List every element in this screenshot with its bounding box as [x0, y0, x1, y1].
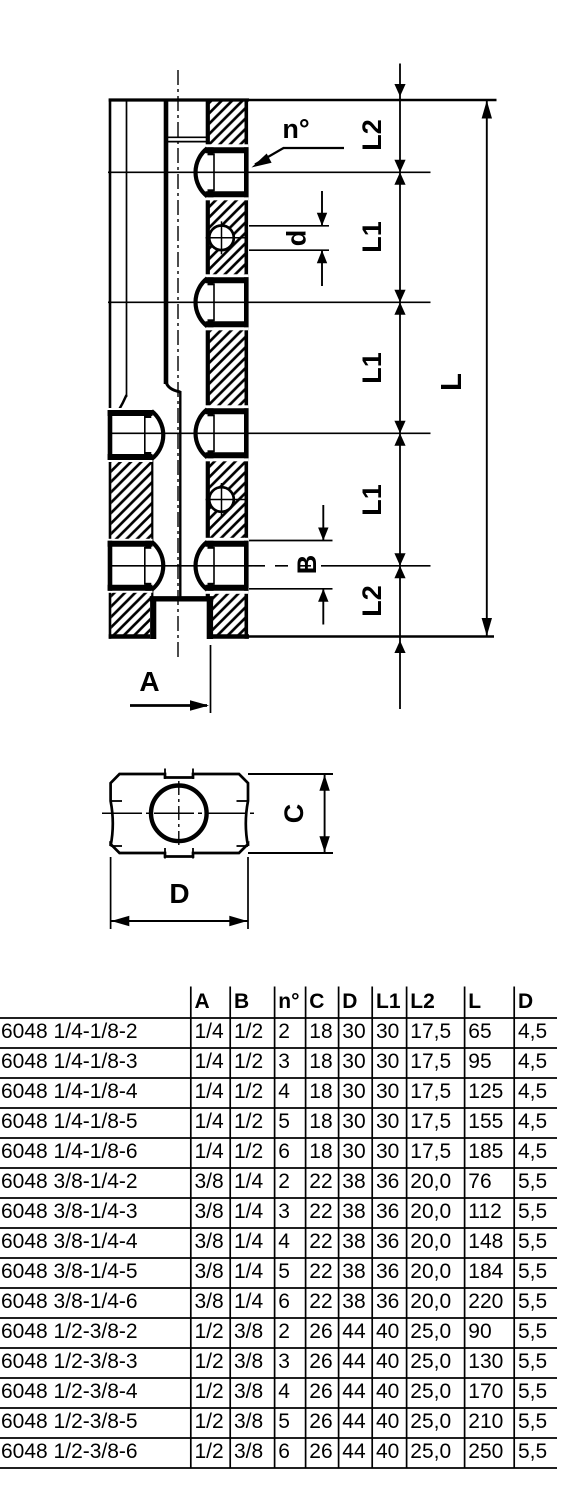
chain dimension line [399, 64, 401, 710]
side port P3 left left border at face [108, 410, 113, 460]
svg-text:4,5: 4,5 [518, 1110, 547, 1133]
svg-text:38: 38 [342, 1230, 365, 1253]
side port P3 left thread line [144, 416, 146, 454]
svg-text:36: 36 [376, 1290, 399, 1313]
svg-text:26: 26 [309, 1350, 332, 1373]
port P4 centerline dashed through B zone [252, 565, 333, 567]
svg-text:40: 40 [376, 1410, 399, 1433]
svg-text:1/2: 1/2 [234, 1140, 263, 1163]
side port P2 right thread line [213, 283, 215, 321]
port P4 centerline solid through body [108, 565, 252, 567]
side port P3 left bottom border [108, 454, 153, 460]
gallery wall bottom curve into bore line [166, 382, 180, 393]
svg-text:6048 1/4-1/8-3: 6048 1/4-1/8-3 [1, 1050, 138, 1073]
svg-text:2: 2 [278, 1170, 290, 1193]
side port P4 right clearing [205, 538, 249, 594]
svg-text:30: 30 [342, 1110, 365, 1133]
svg-text:1/4: 1/4 [234, 1200, 264, 1223]
side port P2 right top border [206, 277, 249, 283]
svg-text:D: D [342, 990, 357, 1013]
side port P1 right right border at face [244, 147, 249, 197]
svg-text:22: 22 [309, 1170, 332, 1193]
top face extension line [249, 99, 497, 101]
svg-text:38: 38 [342, 1200, 365, 1223]
d dimension lower extension line [249, 249, 329, 251]
svg-text:6048 1/2-3/8-3: 6048 1/2-3/8-3 [1, 1350, 138, 1373]
svg-text:1/2: 1/2 [195, 1350, 224, 1373]
svg-text:30: 30 [342, 1140, 365, 1163]
d dimension upper extension line [249, 225, 329, 227]
bore wall line x=180.3 [179, 391, 181, 597]
A dimension arrow line [130, 704, 207, 707]
svg-text:44: 44 [342, 1410, 366, 1433]
side port P3 left thread arc [152, 411, 164, 459]
svg-text:22: 22 [309, 1230, 332, 1253]
svg-text:5,5: 5,5 [518, 1320, 547, 1343]
svg-text:22: 22 [309, 1290, 332, 1313]
mounting hole d2 circle [209, 487, 234, 512]
svg-text:B: B [234, 990, 249, 1013]
svg-text:5,5: 5,5 [518, 1410, 547, 1433]
top view vertical centerline [178, 781, 180, 846]
svg-text:184: 184 [468, 1260, 503, 1283]
side port P3 left top border [108, 410, 153, 416]
d dimension arrow up [317, 250, 327, 263]
svg-text:1/4: 1/4 [234, 1260, 264, 1283]
svg-text:20,0: 20,0 [410, 1290, 451, 1313]
svg-text:A: A [139, 666, 159, 697]
svg-text:25,0: 25,0 [410, 1320, 451, 1343]
top view side port edges left [111, 800, 122, 802]
svg-text:1/4: 1/4 [234, 1230, 264, 1253]
side port P4 right right border at face [244, 541, 249, 591]
D dimension arrow left [111, 916, 129, 926]
svg-text:C: C [279, 804, 309, 824]
svg-text:38: 38 [342, 1260, 365, 1283]
port P1 centerline and extension [108, 171, 431, 173]
svg-text:4,5: 4,5 [518, 1140, 547, 1163]
mounting hole d2 centerlines [206, 499, 248, 501]
svg-text:250: 250 [468, 1440, 503, 1463]
side port P4 left top border [108, 541, 153, 547]
svg-text:3/8: 3/8 [195, 1170, 224, 1193]
svg-text:1/4: 1/4 [234, 1290, 264, 1313]
svg-text:185: 185 [468, 1140, 503, 1163]
svg-text:25,0: 25,0 [410, 1380, 451, 1403]
B dimension lower extension line [249, 588, 333, 590]
side port P3 right top border [206, 408, 249, 414]
svg-text:30: 30 [376, 1080, 399, 1103]
svg-text:30: 30 [376, 1110, 399, 1133]
svg-text:B: B [292, 555, 322, 575]
svg-text:L1: L1 [376, 990, 401, 1013]
svg-text:1/4: 1/4 [195, 1110, 225, 1133]
svg-text:3/8: 3/8 [234, 1440, 263, 1463]
side port P4 right top border [206, 541, 249, 547]
svg-text:1/4: 1/4 [195, 1020, 225, 1043]
B dimension upper extension line [249, 540, 333, 542]
svg-text:17,5: 17,5 [410, 1110, 451, 1133]
svg-text:3/8: 3/8 [234, 1320, 263, 1343]
side port P4 right thread line [213, 547, 215, 585]
svg-text:6048 1/4-1/8-6: 6048 1/4-1/8-6 [1, 1140, 138, 1163]
svg-text:30: 30 [376, 1140, 399, 1163]
top recess step double line upper [166, 136, 208, 138]
svg-text:6048 3/8-1/4-5: 6048 3/8-1/4-5 [1, 1260, 138, 1283]
svg-text:1/4: 1/4 [195, 1080, 225, 1103]
svg-text:20,0: 20,0 [410, 1200, 451, 1223]
profile transition curve [110, 395, 127, 423]
side port P4 left bottom border [108, 585, 153, 591]
top view horizontal centerline [102, 812, 255, 814]
top view port recess ticks bottom edge [164, 848, 166, 859]
side port P3 right thread arc [196, 409, 208, 457]
svg-text:30: 30 [376, 1020, 399, 1043]
table column separator lines [190, 987, 192, 1469]
svg-text:30: 30 [342, 1080, 365, 1103]
svg-text:148: 148 [468, 1230, 503, 1253]
D dimension line [111, 920, 248, 922]
svg-text:6: 6 [278, 1290, 290, 1313]
side port P3 right thread line [213, 414, 215, 452]
svg-text:5,5: 5,5 [518, 1230, 547, 1253]
svg-text:26: 26 [309, 1320, 332, 1343]
svg-text:5,5: 5,5 [518, 1260, 547, 1283]
svg-text:17,5: 17,5 [410, 1020, 451, 1043]
B dimension arrow down [318, 528, 328, 541]
svg-text:25,0: 25,0 [410, 1440, 451, 1463]
C dimension bottom extension line [248, 852, 333, 854]
svg-text:38: 38 [342, 1170, 365, 1193]
svg-text:112: 112 [468, 1200, 501, 1223]
svg-text:30: 30 [342, 1050, 365, 1073]
B dimension arrow up [318, 589, 328, 602]
D dimension left extension line [110, 857, 112, 929]
svg-text:6048 1/2-3/8-4: 6048 1/2-3/8-4 [1, 1380, 138, 1403]
right gallery wall / hatch boundary x=207.8 [206, 100, 210, 635]
svg-text:6048 3/8-1/4-2: 6048 3/8-1/4-2 [1, 1170, 138, 1193]
chain dim bowtie arrows at y=565.8 [394, 553, 405, 566]
svg-text:5,5: 5,5 [518, 1290, 547, 1313]
svg-text:1/2: 1/2 [195, 1410, 224, 1433]
side port P3 right bottom border [206, 452, 249, 458]
svg-text:6: 6 [278, 1140, 290, 1163]
svg-text:L1: L1 [357, 352, 387, 384]
svg-text:1/2: 1/2 [234, 1110, 263, 1133]
svg-text:6048 3/8-1/4-4: 6048 3/8-1/4-4 [1, 1230, 138, 1253]
svg-text:36: 36 [376, 1260, 399, 1283]
svg-text:A: A [195, 990, 210, 1013]
svg-text:3/8: 3/8 [234, 1410, 263, 1433]
svg-text:6048 1/2-3/8-6: 6048 1/2-3/8-6 [1, 1440, 138, 1463]
side port P3 left clearing [108, 408, 153, 462]
side port P3 right left border segments [208, 408, 214, 416]
leader line n&#176; [283, 147, 344, 149]
svg-text:L2: L2 [410, 990, 435, 1013]
side port P1 right top border [206, 147, 249, 153]
side port P2 right thread arc [196, 278, 208, 326]
side port P2 right bottom border [206, 321, 249, 327]
svg-text:1/4: 1/4 [234, 1170, 264, 1193]
bottom port A left wall [150, 599, 156, 639]
svg-text:5,5: 5,5 [518, 1200, 547, 1223]
svg-text:5,5: 5,5 [518, 1440, 547, 1463]
body bottom face edge right segment [210, 634, 250, 639]
side port P4 left clearing [108, 539, 153, 593]
L dimension arrow bottom [482, 618, 492, 636]
svg-text:6048 1/4-1/8-4: 6048 1/4-1/8-4 [1, 1080, 138, 1103]
B dimension line upper segment [322, 505, 324, 541]
svg-text:6048 1/2-3/8-2: 6048 1/2-3/8-2 [1, 1320, 138, 1343]
svg-text:90: 90 [468, 1320, 491, 1343]
bottom port A top border [150, 596, 214, 601]
svg-text:6048 1/4-1/8-5: 6048 1/4-1/8-5 [1, 1110, 138, 1133]
leader arrowhead n&#176; [252, 154, 272, 168]
A dimension arrowhead [190, 700, 209, 710]
svg-text:20,0: 20,0 [410, 1230, 451, 1253]
svg-text:5,5: 5,5 [518, 1170, 547, 1193]
svg-text:1/4: 1/4 [195, 1140, 225, 1163]
C dimension arrow up [319, 775, 329, 791]
d dimension arrow down [317, 213, 327, 226]
svg-text:3: 3 [278, 1050, 290, 1073]
svg-text:6048 1/4-1/8-2: 6048 1/4-1/8-2 [1, 1020, 138, 1043]
svg-text:17,5: 17,5 [410, 1080, 451, 1103]
svg-text:3/8: 3/8 [195, 1230, 224, 1253]
svg-text:L1: L1 [357, 484, 387, 516]
side port P1 right left border segments [208, 147, 214, 155]
svg-text:5,5: 5,5 [518, 1380, 547, 1403]
thick gallery wall line x=166 [164, 100, 169, 384]
svg-text:30: 30 [342, 1020, 365, 1043]
side port P2 right right border at face [244, 277, 249, 327]
svg-text:25,0: 25,0 [410, 1350, 451, 1373]
svg-text:4: 4 [278, 1230, 290, 1253]
L dimension line [486, 100, 488, 637]
svg-text:D: D [169, 878, 189, 909]
svg-text:1/2: 1/2 [195, 1440, 224, 1463]
svg-text:26: 26 [309, 1410, 332, 1433]
svg-text:220: 220 [468, 1290, 503, 1313]
svg-text:L: L [468, 990, 481, 1013]
chain dim bowtie arrows at y=172.3 [394, 160, 405, 173]
C dimension line [324, 774, 326, 853]
svg-text:5: 5 [278, 1410, 290, 1433]
body top face edge [109, 98, 249, 101]
svg-text:3/8: 3/8 [234, 1380, 263, 1403]
side port P3 left right border segments [145, 410, 151, 418]
svg-text:22: 22 [309, 1200, 332, 1223]
svg-text:40: 40 [376, 1350, 399, 1373]
top view main bore circle [151, 786, 207, 842]
table horizontal lines [0, 1017, 557, 1019]
side port P4 left left border at face [108, 541, 113, 591]
svg-text:22: 22 [309, 1260, 332, 1283]
inner profile line x=126.5 [126, 100, 128, 397]
svg-text:3/8: 3/8 [195, 1290, 224, 1313]
side port P4 right thread arc [196, 542, 208, 590]
svg-text:125: 125 [468, 1080, 503, 1103]
top view outline [111, 774, 248, 857]
svg-text:36: 36 [376, 1230, 399, 1253]
port P4 extension to chain dimension [333, 565, 431, 567]
side port P4 left thread arc [152, 542, 164, 590]
svg-text:5,5: 5,5 [518, 1350, 547, 1373]
svg-text:130: 130 [468, 1350, 503, 1373]
svg-text:1/4: 1/4 [195, 1050, 225, 1073]
svg-text:18: 18 [309, 1140, 332, 1163]
svg-text:d: d [282, 230, 312, 247]
svg-text:65: 65 [468, 1020, 491, 1043]
svg-text:1/2: 1/2 [234, 1050, 263, 1073]
port P2 centerline and extension [108, 301, 431, 303]
svg-text:36: 36 [376, 1170, 399, 1193]
svg-text:C: C [309, 990, 324, 1013]
svg-text:3/8: 3/8 [195, 1260, 224, 1283]
svg-text:6048 1/2-3/8-5: 6048 1/2-3/8-5 [1, 1410, 138, 1433]
svg-text:3/8: 3/8 [234, 1350, 263, 1373]
svg-text:6048 3/8-1/4-3: 6048 3/8-1/4-3 [1, 1200, 138, 1223]
svg-text:17,5: 17,5 [410, 1140, 451, 1163]
side port P1 right bottom border [206, 191, 249, 197]
svg-text:6: 6 [278, 1440, 290, 1463]
B dimension line lower segment [322, 589, 324, 625]
svg-text:44: 44 [342, 1380, 366, 1403]
svg-text:26: 26 [309, 1380, 332, 1403]
svg-text:4,5: 4,5 [518, 1050, 547, 1073]
side port P4 right bottom border [206, 585, 249, 591]
d dimension line upper segment [321, 191, 323, 226]
svg-text:155: 155 [468, 1110, 503, 1133]
svg-text:5: 5 [278, 1260, 290, 1283]
svg-text:210: 210 [468, 1410, 503, 1433]
svg-text:L: L [436, 373, 468, 391]
svg-text:1/2: 1/2 [234, 1080, 263, 1103]
top view side port edges right [237, 800, 249, 802]
A dimension extension line [210, 645, 212, 713]
svg-text:18: 18 [309, 1080, 332, 1103]
svg-text:n°: n° [278, 990, 299, 1013]
svg-text:40: 40 [376, 1440, 399, 1463]
svg-text:4: 4 [278, 1080, 290, 1103]
d dimension line lower segment [321, 250, 323, 286]
svg-text:17,5: 17,5 [410, 1050, 451, 1073]
svg-text:26: 26 [309, 1440, 332, 1463]
C dimension arrow down [319, 836, 329, 852]
svg-text:170: 170 [468, 1380, 503, 1403]
top view port recess ticks top edge [164, 769, 166, 780]
svg-text:44: 44 [342, 1440, 366, 1463]
svg-text:3/8: 3/8 [195, 1200, 224, 1223]
svg-text:2: 2 [278, 1020, 290, 1043]
vertical centerline of body [177, 70, 179, 657]
svg-text:3: 3 [278, 1200, 290, 1223]
hatch left wall band lower section [111, 458, 152, 635]
D dimension right extension line [247, 857, 249, 929]
svg-text:L2: L2 [357, 585, 387, 617]
top recess step double line lower [166, 141, 208, 143]
svg-text:D: D [518, 990, 533, 1013]
C dimension top extension line [248, 773, 333, 775]
bottom port A right wall [207, 599, 213, 639]
mounting hole d1 centerlines [206, 237, 248, 239]
svg-text:40: 40 [376, 1320, 399, 1343]
chain dim arrow at bottom face [394, 641, 405, 654]
bottom port A clearing [150, 598, 213, 640]
side port P2 right left border segments [208, 277, 214, 285]
side port P4 left thread line [144, 547, 146, 585]
svg-text:95: 95 [468, 1050, 491, 1073]
svg-text:20,0: 20,0 [410, 1170, 451, 1193]
hatch right wall band [206, 102, 246, 636]
svg-text:44: 44 [342, 1320, 366, 1343]
port P3 centerline and extension [108, 432, 431, 434]
bottom face extension line [249, 635, 494, 637]
mounting hole d1 circle [209, 226, 234, 251]
svg-text:30: 30 [376, 1050, 399, 1073]
svg-text:L1: L1 [357, 221, 387, 253]
svg-text:40: 40 [376, 1380, 399, 1403]
side port P3 right clearing [205, 405, 249, 461]
side port P4 left right border segments [145, 541, 151, 549]
svg-text:25,0: 25,0 [410, 1410, 451, 1433]
svg-text:L2: L2 [357, 119, 387, 151]
L dimension arrow top [482, 101, 492, 119]
chain dim arrow at top face [394, 84, 405, 97]
svg-text:5: 5 [278, 1110, 290, 1133]
svg-text:36: 36 [376, 1200, 399, 1223]
svg-text:6048 3/8-1/4-6: 6048 3/8-1/4-6 [1, 1290, 138, 1313]
svg-text:76: 76 [468, 1170, 491, 1193]
side port P2 right clearing [205, 274, 249, 330]
D dimension arrow right [229, 916, 247, 926]
side port P1 right thread arc [196, 148, 208, 196]
svg-text:44: 44 [342, 1350, 366, 1373]
side port P3 right right border at face [244, 408, 249, 458]
side port P1 right thread line [213, 153, 215, 191]
svg-text:18: 18 [309, 1110, 332, 1133]
body bottom face edge left segment [109, 634, 154, 639]
body right outer edge [245, 99, 249, 639]
svg-text:4: 4 [278, 1380, 290, 1403]
svg-text:18: 18 [309, 1050, 332, 1073]
svg-text:38: 38 [342, 1290, 365, 1313]
svg-text:1/2: 1/2 [234, 1020, 263, 1043]
svg-text:1/2: 1/2 [195, 1380, 224, 1403]
svg-text:1/2: 1/2 [195, 1320, 224, 1343]
body left outer edge [109, 99, 112, 639]
left hatch boundary line x=152.3 [151, 458, 153, 598]
svg-text:3: 3 [278, 1350, 290, 1373]
svg-text:2: 2 [278, 1320, 290, 1343]
svg-text:n°: n° [282, 114, 309, 144]
svg-text:20,0: 20,0 [410, 1260, 451, 1283]
svg-text:4,5: 4,5 [518, 1080, 547, 1103]
chain dim bowtie arrows at y=433.3 [394, 421, 405, 434]
svg-text:4,5: 4,5 [518, 1020, 547, 1043]
side port P1 right clearing [205, 144, 249, 200]
side port P4 right left border segments [208, 541, 214, 549]
chain dim bowtie arrows at y=302.3 [394, 290, 405, 303]
svg-text:18: 18 [309, 1020, 332, 1043]
